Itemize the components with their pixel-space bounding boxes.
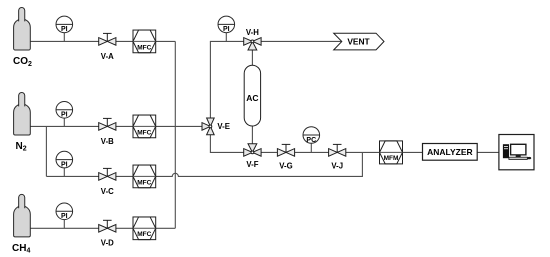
wire bus MFC-A down to MFC-D [174,41,176,228]
valve V-G [277,144,294,156]
svg-text:V-J: V-J [331,162,343,171]
valve V-B [99,118,116,130]
computer mouse [527,157,531,159]
wire vent header [210,41,342,126]
svg-text:VENT: VENT [347,36,370,46]
svg-text:ANALYZER: ANALYZER [427,147,473,157]
wire row2 N2 line to V-E [30,125,202,127]
three-way valve V-F [244,144,261,157]
gas cylinder N2 [14,93,31,136]
mass flow controller MFC row4 [133,217,156,240]
svg-text:V-G: V-G [279,162,292,171]
valve V-A [99,33,116,45]
valve V-D [99,220,116,232]
svg-text:MFC: MFC [137,129,151,136]
gas cylinder CH4 [14,194,31,237]
pressure controller PC [303,127,320,153]
mass flow controller MFC row3 [133,165,156,188]
svg-text:V-H: V-H [246,28,259,37]
mass flow meter MFM [380,141,403,164]
pressure indicator PI row4 [56,203,73,228]
svg-text:MFC: MFC [137,231,151,238]
wire N2 branch down [45,126,47,176]
pressure indicator PI vent header [218,16,235,41]
svg-text:PC: PC [306,137,316,144]
wire V-H down to AC column [251,41,253,65]
svg-text:MFC: MFC [137,44,151,51]
wire V-E to V-F [210,126,252,152]
computer box [499,135,534,170]
computer monitor [510,144,527,158]
svg-text:V-A: V-A [101,52,114,61]
pressure indicator PI row1 [56,16,73,41]
svg-text:PI: PI [61,213,68,220]
analyzer box [423,144,478,161]
svg-text:PI: PI [61,26,68,33]
pressure indicator PI row2 [56,102,73,127]
three-way valve V-E [202,118,214,135]
computer tower [503,144,509,158]
three-way valve V-H [244,38,261,50]
mass flow controller MFC row2 [133,115,156,138]
svg-text:MFC: MFC [137,179,151,186]
svg-text:MFM: MFM [384,155,399,162]
gas cylinder CO2 [14,7,31,50]
wire row1 CO2 line [30,40,175,42]
wire main line V-F to computer [252,151,499,153]
valve V-J [329,144,346,156]
wire AC column to V-F [251,126,253,152]
valve V-C [99,168,116,180]
svg-text:V-E: V-E [217,122,230,131]
svg-text:AC: AC [246,93,258,103]
wire row4 CH4 line [30,227,175,229]
svg-text:V-D: V-D [101,239,114,248]
svg-text:PI: PI [61,161,68,168]
svg-text:PI: PI [223,26,230,33]
mass flow controller MFC row1 [133,30,156,53]
adsorption column AC [244,65,260,126]
svg-text:V-F: V-F [246,160,258,169]
wire row3 dilution line with hop over bus [46,152,362,176]
vent banner VENT [334,33,384,50]
svg-text:PI: PI [61,112,68,119]
svg-text:V-B: V-B [101,137,114,146]
pressure indicator PI row3 [56,151,73,176]
svg-text:V-C: V-C [101,187,114,196]
computer keyboard [509,157,527,159]
